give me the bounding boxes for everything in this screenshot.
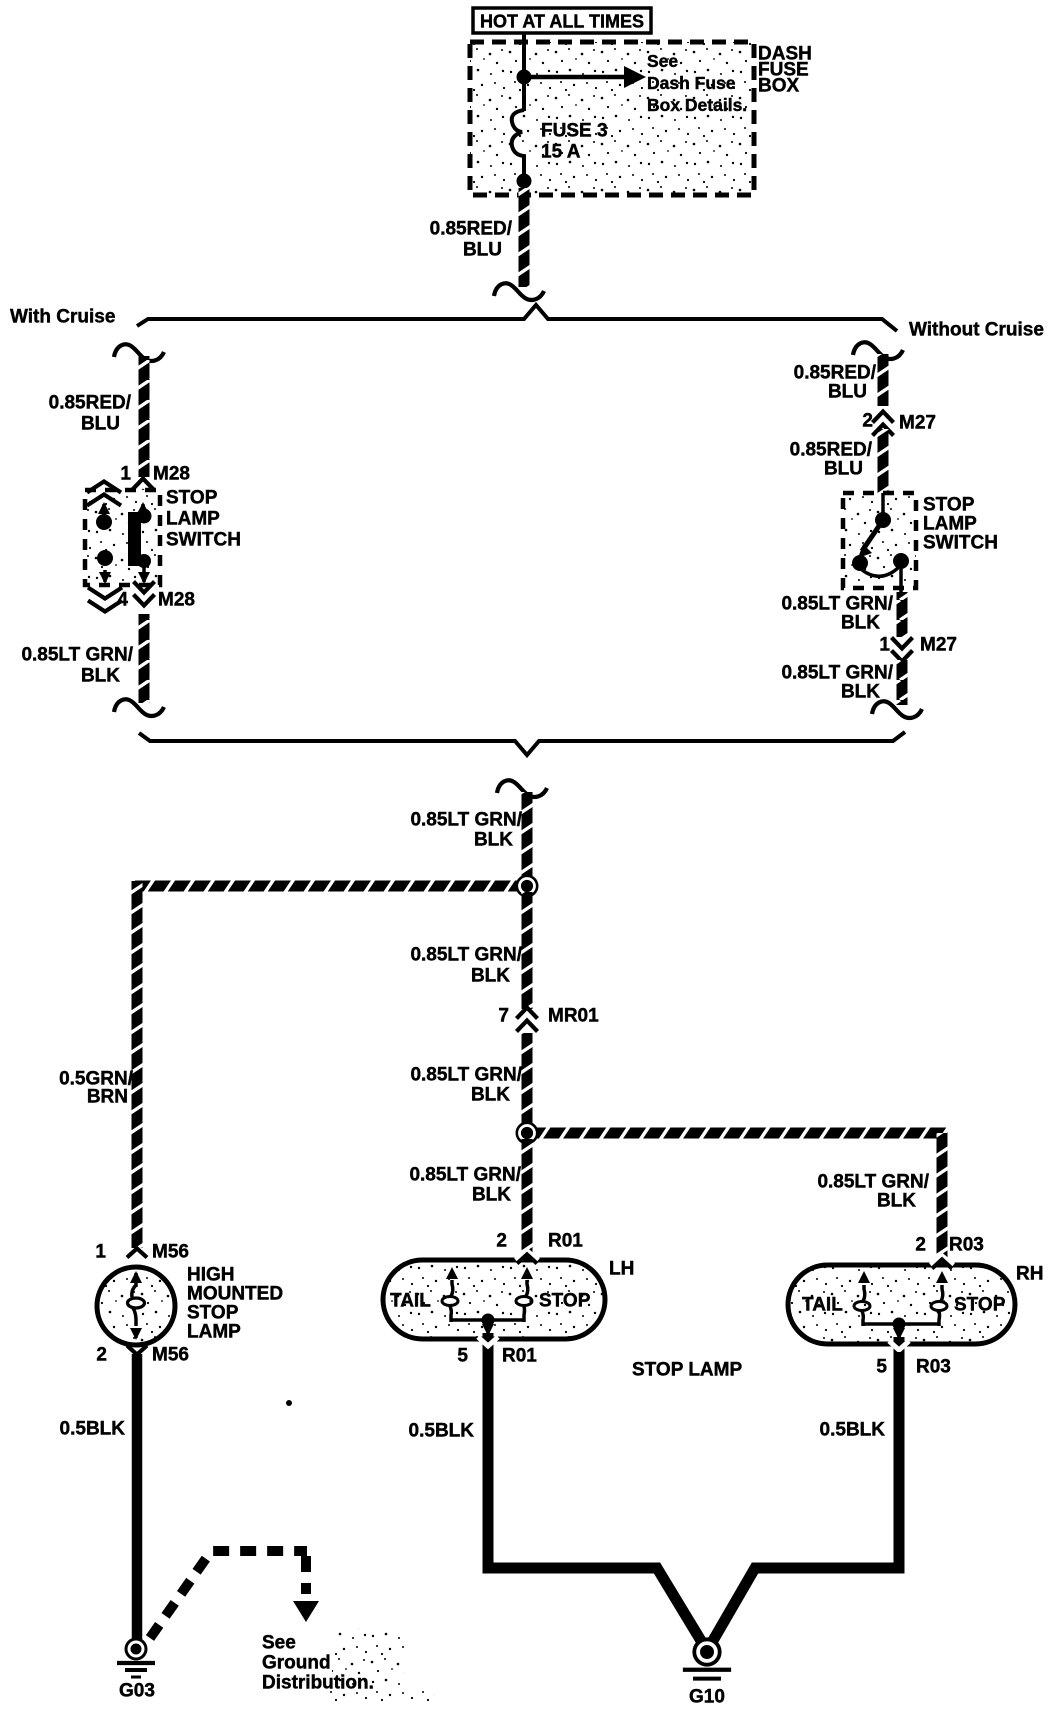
- svg-text:0.85LT GRN/: 0.85LT GRN/: [817, 1172, 929, 1193]
- svg-text:TAIL: TAIL: [390, 1291, 431, 1312]
- svg-text:RH: RH: [1016, 1264, 1043, 1285]
- svg-text:SWITCH: SWITCH: [166, 530, 241, 551]
- svg-text:0.5BLK: 0.5BLK: [820, 1420, 886, 1441]
- wire 0.85LT GRN/BLK to LH lamp: [522, 1139, 533, 1263]
- svg-text:HIGH: HIGH: [187, 1265, 235, 1286]
- wire break middle top: [497, 780, 547, 797]
- RH lamp common junction: [893, 1318, 906, 1331]
- LH stop bulb: [516, 1297, 532, 1306]
- junction dot above fuse: [517, 70, 532, 85]
- svg-text:R01: R01: [502, 1346, 537, 1367]
- LH tail bulb: [442, 1297, 458, 1306]
- svg-text:R03: R03: [949, 1235, 984, 1256]
- wire 0.85LT GRN/BLK right branch lower: [897, 660, 908, 705]
- svg-text:BLK: BLK: [471, 1085, 510, 1106]
- wire branch right at junction 2: [527, 1128, 948, 1139]
- wire break right branch bottom: [872, 701, 922, 718]
- wire break left branch top: [114, 344, 164, 361]
- junction splice middle/right: [516, 1122, 539, 1145]
- wire break (top feed): [494, 283, 544, 300]
- wire 0.5BLK from high mounted stop lamp to G03: [132, 1354, 143, 1649]
- svg-text:0.85LT GRN/: 0.85LT GRN/: [781, 663, 893, 684]
- svg-text:0.5BLK: 0.5BLK: [409, 1421, 475, 1442]
- wire break right branch top: [853, 342, 903, 359]
- dash fuse box (stippled): [470, 42, 754, 195]
- svg-text:M56: M56: [152, 1345, 189, 1366]
- wire 0.5GRN/BRN to high mounted stop lamp: [132, 881, 143, 1248]
- svg-text:SWITCH: SWITCH: [923, 533, 998, 554]
- svg-text:Ground: Ground: [262, 1653, 331, 1674]
- svg-text:BLK: BLK: [877, 1191, 916, 1212]
- bottom bus brace (wires rejoin): [139, 732, 905, 755]
- svg-text:TAIL: TAIL: [802, 1295, 843, 1316]
- wire 0.85RED/BLU from fuse box: [519, 188, 530, 287]
- junction splice middle/left: [516, 875, 539, 898]
- top bus brace (wire split With/Without Cruise): [137, 305, 897, 331]
- svg-text:M28: M28: [153, 464, 190, 485]
- svg-text:2: 2: [96, 1345, 107, 1366]
- svg-text:BLK: BLK: [81, 666, 120, 687]
- svg-text:0.5BLK: 0.5BLK: [60, 1419, 126, 1440]
- svg-text:Without Cruise: Without Cruise: [909, 320, 1044, 341]
- connector MR01 pin 7 chevrons: [517, 1008, 538, 1019]
- switch cruise-pole lower contact: [97, 550, 113, 566]
- arrow to dash fuse box details: [524, 75, 629, 80]
- connector R03 pin 2 chevron: [931, 1257, 953, 1266]
- svg-text:BLK: BLK: [471, 966, 510, 987]
- HOT AT ALL TIMES label box: [473, 8, 651, 33]
- svg-text:4: 4: [117, 590, 128, 611]
- connector M27 pin 1 chevrons: [892, 638, 913, 649]
- svg-text:BLK: BLK: [472, 1185, 511, 1206]
- RH stop bulb: [931, 1302, 947, 1311]
- switch internals (right): [881, 493, 885, 514]
- wire 0.85LT GRN/BLK middle 2: [522, 892, 533, 1009]
- svg-text:0.85LT GRN/: 0.85LT GRN/: [781, 594, 893, 615]
- svg-text:15 A: 15 A: [541, 142, 581, 163]
- svg-text:BLU: BLU: [81, 414, 120, 435]
- svg-text:Dash Fuse: Dash Fuse: [647, 73, 736, 93]
- connector M28 pin 4 chevrons: [134, 582, 155, 593]
- stray mark: [286, 1400, 292, 1406]
- svg-text:R03: R03: [916, 1357, 951, 1378]
- svg-text:M28: M28: [158, 590, 195, 611]
- connector R03 pin 5 notch: [894, 1337, 905, 1363]
- high mounted stop lamp circle: [97, 1267, 175, 1345]
- svg-text:BLK: BLK: [474, 830, 513, 851]
- svg-text:BLK: BLK: [841, 613, 880, 634]
- svg-text:BLK: BLK: [841, 682, 880, 703]
- svg-text:2: 2: [496, 1231, 507, 1252]
- stipple near ground distribution note: [332, 1628, 404, 1690]
- svg-text:M27: M27: [899, 413, 936, 434]
- svg-text:5: 5: [457, 1346, 468, 1367]
- svg-text:BRN: BRN: [87, 1087, 128, 1108]
- high mounted stop lamp bulb filament: [134, 1273, 138, 1287]
- svg-text:LAMP: LAMP: [187, 1322, 241, 1343]
- svg-text:STOP: STOP: [923, 495, 975, 516]
- wire dot to fuse: [522, 77, 526, 111]
- wire break left branch bottom: [114, 699, 164, 716]
- svg-text:1: 1: [120, 464, 131, 485]
- wire 0.85LT GRN/BLK to RH lamp: [937, 1133, 948, 1268]
- svg-text:1: 1: [879, 635, 890, 656]
- svg-text:0.85LT GRN/: 0.85LT GRN/: [410, 1065, 522, 1086]
- svg-text:0.85RED/: 0.85RED/: [430, 219, 513, 240]
- fuse FUSE 3 15A symbol: [512, 110, 524, 177]
- svg-text:See: See: [262, 1633, 296, 1654]
- connector R01 pin 5 notch: [483, 1333, 494, 1359]
- RH lamp common lead: [863, 1322, 939, 1326]
- svg-text:M56: M56: [152, 1242, 189, 1263]
- wire 0.85RED/BLU right branch lower: [878, 429, 889, 493]
- LH lamp common junction: [482, 1314, 495, 1327]
- LH lamp common lead: [451, 1318, 524, 1322]
- svg-text:Distribution.: Distribution.: [262, 1673, 374, 1694]
- svg-text:1: 1: [95, 1242, 106, 1263]
- svg-text:G10: G10: [689, 1687, 725, 1708]
- wire 0.5BLK from LH lamp: [488, 1352, 703, 1644]
- svg-text:MR01: MR01: [548, 1006, 599, 1027]
- svg-text:LAMP: LAMP: [923, 514, 977, 535]
- svg-text:LAMP: LAMP: [166, 509, 220, 530]
- switch blade (stop lamp switch left): [141, 504, 145, 512]
- svg-text:0.85RED/: 0.85RED/: [794, 363, 877, 384]
- RH stop/tail lamp body: [788, 1265, 1015, 1344]
- svg-text:0.85LT GRN/: 0.85LT GRN/: [21, 645, 133, 666]
- ground G10: [692, 1637, 721, 1666]
- svg-text:With Cruise: With Cruise: [10, 307, 115, 328]
- svg-text:R01: R01: [548, 1231, 583, 1252]
- switch cruise-pole upper contact: [87, 482, 121, 493]
- dashed wire to ground distribution: [150, 1551, 307, 1638]
- svg-text:STOP: STOP: [954, 1295, 1006, 1316]
- wire 0.85LT GRN/BLK left branch: [139, 614, 150, 703]
- svg-text:0.85RED/: 0.85RED/: [790, 440, 873, 461]
- wire 0.85RED/BLU left branch: [139, 356, 150, 477]
- svg-text:0.85LT GRN/: 0.85LT GRN/: [409, 1165, 521, 1186]
- wire 0.85LT GRN/BLK middle upper: [522, 792, 533, 886]
- wire 0.5BLK from RH lamp: [711, 1352, 899, 1644]
- svg-text:HOT AT ALL TIMES: HOT AT ALL TIMES: [480, 12, 644, 32]
- ground G03: [125, 1638, 148, 1661]
- svg-text:0.85RED/: 0.85RED/: [49, 393, 132, 414]
- svg-text:BOX: BOX: [758, 76, 800, 97]
- stop lamp switch (without cruise) dashed box: [843, 493, 916, 588]
- connector R01 pin 2 chevron: [516, 1252, 538, 1261]
- connector M27 pin 2 chevrons: [873, 412, 894, 423]
- svg-text:2: 2: [915, 1235, 926, 1256]
- wire 0.85LT GRN/BLK middle 3: [522, 1033, 533, 1128]
- RH tail bulb: [854, 1302, 870, 1311]
- stop lamp switch (with cruise) dashed box: [85, 490, 160, 585]
- wire 0.85LT GRN/BLK right branch upper: [897, 592, 908, 637]
- svg-text:BLU: BLU: [828, 382, 867, 403]
- svg-text:STOP LAMP: STOP LAMP: [632, 1360, 742, 1381]
- svg-text:See: See: [647, 51, 678, 71]
- connector M56 pin 2 chevron: [127, 1346, 147, 1355]
- svg-text:STOP: STOP: [187, 1303, 239, 1324]
- svg-text:MOUNTED: MOUNTED: [187, 1284, 283, 1305]
- wire 0.85RED/BLU right branch upper: [878, 354, 889, 406]
- svg-text:7: 7: [498, 1006, 509, 1027]
- svg-text:0.85LT GRN/: 0.85LT GRN/: [410, 810, 522, 831]
- wire branch left at junction: [132, 881, 528, 892]
- svg-text:M27: M27: [920, 635, 957, 656]
- connector M28 pin 1 chevrons: [133, 479, 154, 490]
- wire from HOT AT ALL TIMES into fuse box: [522, 33, 526, 73]
- svg-text:G03: G03: [119, 1681, 155, 1702]
- svg-text:BLU: BLU: [463, 240, 502, 261]
- svg-text:STOP: STOP: [166, 488, 218, 509]
- svg-text:STOP: STOP: [539, 1291, 591, 1312]
- svg-text:Box Details.: Box Details.: [647, 95, 747, 115]
- svg-text:BLU: BLU: [824, 459, 863, 480]
- svg-text:5: 5: [876, 1357, 887, 1378]
- connector M56 pin 1 chevron: [127, 1249, 147, 1258]
- svg-text:FUSE 3: FUSE 3: [541, 121, 608, 142]
- junction dot below fuse: [517, 174, 532, 189]
- svg-text:0.85LT GRN/: 0.85LT GRN/: [410, 945, 522, 966]
- LH stop/tail lamp body: [383, 1260, 605, 1339]
- svg-text:LH: LH: [609, 1259, 634, 1280]
